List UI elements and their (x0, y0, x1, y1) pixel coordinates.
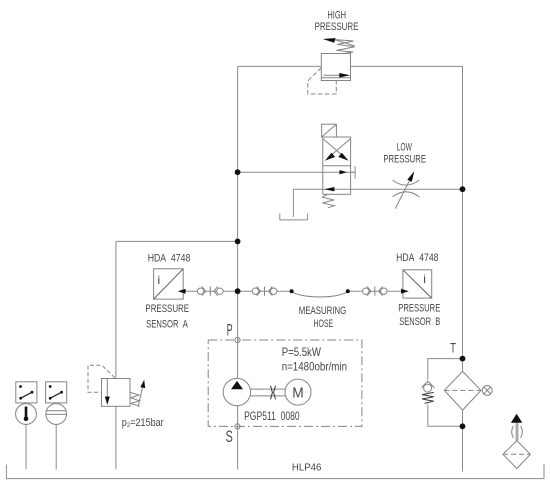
svg-text:PRESSURE: PRESSURE (383, 153, 426, 165)
breather stem (516, 423, 518, 441)
relief valve V1 spring (335, 40, 355, 54)
svg-text:HDA 4748: HDA 4748 (148, 252, 191, 264)
valve V2 spring (322, 194, 334, 208)
svg-text:HIGH: HIGH (327, 9, 346, 21)
svg-text:PRESSURE: PRESSURE (315, 21, 359, 33)
relief valve V3 pilot dashed (88, 365, 115, 392)
valve V2 crossed arrows top box (323, 139, 350, 161)
valve V2 lower line + left arrow over body (323, 187, 351, 191)
port P circle (235, 337, 240, 342)
svg-text:PRESSURE: PRESSURE (145, 303, 189, 315)
svg-text:HOSE: HOSE (314, 318, 334, 330)
wire left branch vertical to relief valve V3 (115, 241, 117, 378)
junction dot right rail lower valve line (460, 186, 466, 192)
svg-text:SENSOR B: SENSOR B (399, 316, 440, 328)
shaft coupling marks (271, 386, 276, 400)
wire sensor line right (348, 290, 403, 292)
contact gauge 1 (16, 404, 37, 425)
junction dot sensor line (235, 288, 241, 294)
relief valve V1 adjustment arrow (323, 38, 355, 46)
solenoid of valve V2 (322, 124, 337, 137)
wire gauge stem 2 (55, 424, 57, 469)
svg-text:P=5.5kW: P=5.5kW (282, 345, 322, 359)
wire directional valve lower line to right rail (293, 188, 462, 190)
junction dot left branch (235, 239, 241, 245)
breather filter diamond (503, 441, 530, 469)
hose end dot right (346, 289, 350, 293)
junction dot filter top (460, 356, 466, 362)
svg-text:T: T (450, 339, 456, 355)
pressure switch 2 box (46, 382, 67, 403)
coupling pair 3 (363, 287, 387, 296)
pressure sensor A body (154, 269, 184, 299)
svg-text:i: i (158, 273, 161, 287)
wire below relief valve V3 to tank (115, 406, 117, 469)
tank symbol under directional valve (280, 213, 308, 220)
temperature gauge 2 (46, 404, 67, 425)
blocked port tick (354, 166, 356, 179)
relief valve V3 spring (130, 392, 140, 406)
motor shaft double line (251, 389, 285, 396)
coupling pair 2 (252, 287, 277, 296)
directional valve V2 body (323, 137, 351, 194)
wire left main vertical rail P-line (237, 66, 239, 469)
breather arcs (512, 426, 523, 438)
svg-text:p₂=215bar: p₂=215bar (122, 417, 164, 429)
relief valve V3 adjustment arrow (138, 380, 145, 407)
svg-text:i: i (423, 272, 426, 286)
svg-text:SENSOR A: SENSOR A (146, 319, 188, 331)
throttle valve adjustment arrow (395, 171, 414, 208)
bypass check valve (421, 381, 434, 403)
measuring hose curve (292, 291, 348, 297)
junction dot valve line A (235, 169, 241, 175)
wire gauge stem 1 (25, 424, 27, 469)
wire left branch horizontal (116, 240, 238, 242)
svg-text:MEASURING: MEASURING (299, 305, 346, 317)
svg-text:M: M (292, 384, 304, 401)
svg-text:HDA 4748: HDA 4748 (396, 252, 438, 264)
sensor B arrow (401, 289, 409, 294)
return filter diamond (444, 371, 482, 410)
relief valve V1 HIGH PRESSURE body (321, 54, 350, 81)
svg-text:P: P (227, 322, 233, 340)
svg-text:S: S (226, 428, 233, 446)
relief valve V1 pilot dashed line (308, 68, 337, 94)
tank outline (6, 464, 544, 478)
wire right vertical rail T-line (462, 66, 464, 471)
svg-text:HLP46: HLP46 (292, 463, 322, 474)
svg-text:PGP511 0080: PGP511 0080 (244, 409, 300, 423)
motor M circle (285, 379, 311, 405)
pressure sensor B body (403, 270, 432, 298)
svg-text:PRESSURE: PRESSURE (398, 302, 440, 314)
sensor A arrow (178, 289, 186, 294)
svg-text:LOW: LOW (397, 141, 413, 153)
port S circle (235, 424, 240, 429)
relief valve V3 body p2 (102, 379, 131, 407)
clogging indicator (482, 386, 492, 396)
wire drain drop of directional valve (292, 189, 294, 217)
pump PGP511 circle (223, 378, 250, 405)
wire bypass around filter (428, 359, 463, 427)
valve V2 upper line + arrow redrawn over body (323, 170, 355, 174)
throttle valve LOW PRESSURE arcs (393, 180, 420, 197)
wire sensor line left (183, 290, 291, 292)
coupling pair 1 (197, 287, 223, 296)
wire top header line from node A to right rail (238, 65, 463, 67)
svg-text:n=1480obr/min: n=1480obr/min (282, 360, 347, 374)
pressure switch 1 box (16, 382, 37, 403)
wire directional valve upper line (238, 171, 356, 173)
power unit enclosure dash-dot (208, 340, 362, 426)
breather cap triangle (511, 414, 522, 423)
junction dot filter bottom (460, 423, 466, 429)
hose end dot left (290, 289, 294, 293)
